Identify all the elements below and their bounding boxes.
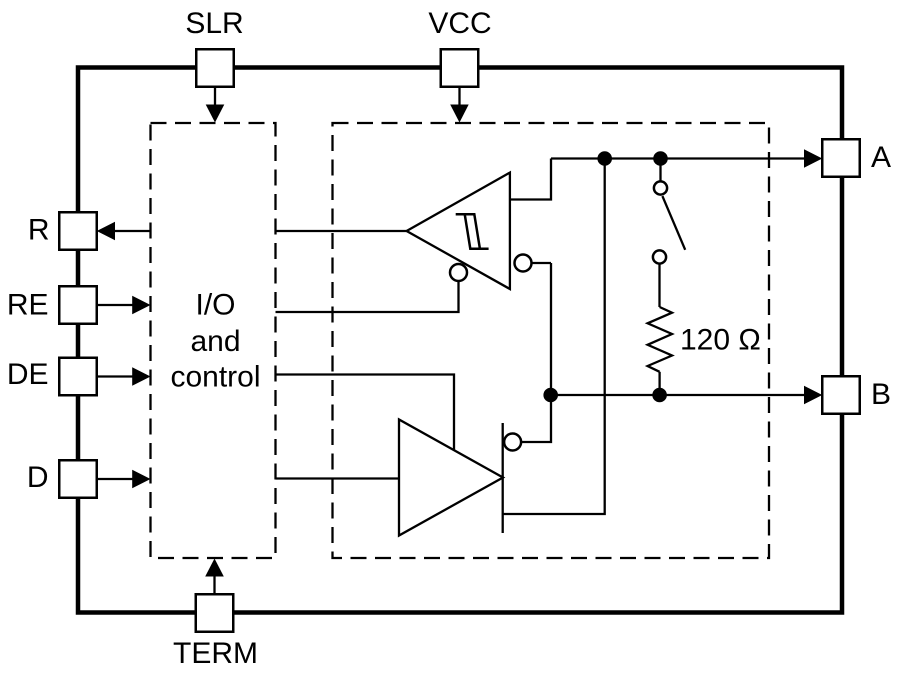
svg-text:120 Ω: 120 Ω — [680, 324, 761, 357]
svg-text:RE: RE — [7, 289, 49, 322]
receiver enable bubble — [450, 264, 467, 281]
arrowhead into A pin — [804, 149, 822, 168]
wire I/O to receiver input — [276, 230, 407, 232]
pin box SLR — [196, 49, 234, 87]
arrowhead into B pin — [804, 386, 822, 405]
hysteresis symbol — [456, 214, 489, 249]
wire I/O to driver enable — [276, 375, 455, 452]
switch stub from A line — [659, 159, 661, 182]
wire node to B pin — [551, 394, 806, 396]
svg-text:D: D — [27, 461, 49, 494]
svg-text:DE: DE — [7, 358, 49, 391]
svg-text:B: B — [871, 378, 891, 411]
receiver triangle U1 — [407, 173, 510, 289]
arrowhead into I/O block (D) — [132, 470, 150, 489]
switch contact circle top — [654, 181, 667, 194]
svg-text:and: and — [190, 325, 240, 358]
pin box TERM — [196, 594, 234, 632]
driver triangle U2 — [399, 420, 503, 536]
pin box DE — [59, 358, 97, 396]
wire DE to I/O block — [97, 375, 134, 377]
arrowhead into I/O block (DE) — [132, 367, 150, 386]
wire R from I/O block — [113, 230, 151, 232]
wire I/O to receiver enable bubble — [276, 281, 459, 312]
wire driver bubble to B node — [521, 395, 551, 442]
wire I/O to driver input — [276, 477, 400, 479]
TERM arrow into I/O block — [213, 576, 215, 595]
svg-text:R: R — [28, 214, 50, 247]
wire switch to resistor — [658, 264, 660, 308]
wire D to I/O block — [97, 478, 134, 480]
outer IC boundary — [78, 68, 842, 613]
VCC arrow into driver/receiver block — [458, 86, 460, 106]
pin box B — [822, 376, 860, 414]
I/O and control dashed block — [151, 123, 276, 558]
receiver inverting input bubble (to B) — [515, 255, 532, 272]
svg-text:SLR: SLR — [185, 7, 243, 40]
SLR arrow into I/O block — [214, 86, 216, 106]
svg-text:control: control — [170, 361, 260, 394]
pin box VCC — [441, 49, 479, 87]
pin box D — [59, 460, 97, 498]
svg-text:I/O: I/O — [195, 289, 235, 322]
pin box A — [822, 139, 860, 177]
arrowhead into R pin — [97, 222, 115, 241]
receiver noninverting input wire (from A) — [510, 159, 551, 200]
wire driver output to A node — [503, 159, 605, 515]
junction dot B-line right — [652, 388, 667, 403]
driver inverting output bubble — [504, 434, 521, 451]
wire RE to I/O block — [97, 304, 134, 306]
junction dot A-line right — [653, 151, 668, 166]
wire node to A pin — [551, 157, 806, 159]
arrowhead into I/O block (RE) — [132, 296, 150, 315]
switch lever — [662, 196, 685, 250]
resistor 120 ohm zigzag — [648, 307, 672, 372]
svg-text:VCC: VCC — [428, 7, 491, 40]
svg-text:TERM: TERM — [173, 637, 258, 670]
pin box R — [59, 212, 97, 250]
driver output bar — [502, 423, 504, 533]
wire resistor to B line — [658, 372, 660, 395]
junction dot B-line left — [543, 388, 558, 403]
junction dot A-line left — [597, 151, 612, 166]
switch contact circle bottom — [653, 250, 666, 263]
pin box RE — [59, 286, 97, 324]
driver/receiver dashed block — [333, 123, 770, 558]
svg-text:A: A — [871, 141, 891, 174]
